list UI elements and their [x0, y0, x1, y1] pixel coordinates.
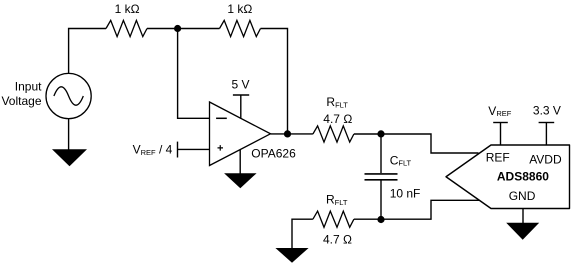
svg-text:REF: REF: [486, 151, 510, 165]
svg-text:RFLT: RFLT: [326, 193, 348, 207]
wire op-amp to ground: [239, 150, 241, 174]
op-amp plus symbol: [218, 145, 224, 151]
svg-text:5 V: 5 V: [232, 78, 250, 92]
ground under source: [52, 149, 87, 166]
resistor RFLT top zigzag: [313, 126, 354, 142]
wire RFLT bottom to ground corner: [292, 219, 313, 248]
svg-text:Input: Input: [15, 80, 42, 94]
svg-text:OPA626: OPA626: [251, 147, 296, 161]
junction dot node C: [377, 216, 384, 223]
ground under RFLT bottom: [275, 248, 308, 263]
svg-text:1 kΩ: 1 kΩ: [227, 2, 252, 16]
junction dot node A: [174, 25, 181, 32]
ADS8860 U2 body pentagon: [446, 145, 570, 209]
wire capacitor to node C: [380, 181, 382, 220]
wire op-amp output to RFLT top: [271, 133, 313, 135]
svg-text:AVDD: AVDD: [529, 153, 562, 167]
wire VREF pin to REF: [500, 123, 502, 146]
ground under ADS8860 GND: [506, 223, 539, 240]
svg-text:10 nF: 10 nF: [390, 187, 421, 201]
resistor RFLT bottom zigzag: [313, 211, 354, 227]
wire node A to R2: [178, 28, 220, 30]
svg-text:Voltage: Voltage: [1, 94, 41, 108]
svg-text:ADS8860: ADS8860: [497, 170, 549, 184]
capacitor CFLT plates: [365, 174, 398, 180]
wire R2 to feedback corner and down to output node: [261, 29, 288, 134]
VREF/4 terminal bar: [177, 142, 179, 158]
wire node C to ADS8860 AINM with jog: [381, 200, 480, 219]
wire R1 to node A: [147, 28, 178, 30]
source V1 circle: [46, 73, 91, 118]
ground under op-amp: [224, 173, 257, 188]
svg-text:RFLT: RFLT: [326, 95, 348, 109]
sine wave inside source: [54, 87, 83, 105]
svg-text:VREF / 4: VREF / 4: [133, 143, 173, 157]
junction dot output node: [284, 130, 291, 137]
svg-text:CFLT: CFLT: [390, 153, 412, 167]
svg-text:1 kΩ: 1 kΩ: [115, 2, 140, 16]
wire node B to ADS8860 AINP with jog: [381, 134, 479, 153]
junction dot node B: [377, 130, 384, 137]
wire node B down to capacitor: [380, 134, 382, 173]
VREF pin T-bar: [493, 122, 508, 124]
svg-text:3.3 V: 3.3 V: [533, 104, 561, 118]
wire 3.3V pin to AVDD: [545, 123, 547, 146]
wire source to ground: [68, 119, 70, 150]
resistor R1 1 kOhm zigzag: [106, 20, 147, 36]
wire node A down to inverting input: [178, 29, 210, 119]
wire RFLT top to node B: [354, 133, 381, 135]
3.3V pin T-bar: [539, 122, 555, 124]
wire GND pin to ground: [522, 209, 524, 224]
wire VREF/4 to non-inverting input: [178, 148, 210, 150]
wire node C left to RFLT bottom: [354, 218, 381, 220]
wire top-left from source to R1: [69, 29, 106, 74]
op-amp minus symbol: [216, 117, 227, 119]
svg-text:GND: GND: [509, 189, 536, 203]
5V supply T-bar: [233, 94, 249, 96]
wire 5V to op-amp: [240, 95, 242, 119]
svg-text:4.7 Ω: 4.7 Ω: [323, 112, 352, 126]
svg-text:VREF: VREF: [488, 104, 511, 118]
resistor R2 1 kOhm zigzag: [220, 20, 261, 36]
op-amp U1 triangle: [210, 102, 271, 166]
svg-text:4.7 Ω: 4.7 Ω: [323, 233, 352, 247]
